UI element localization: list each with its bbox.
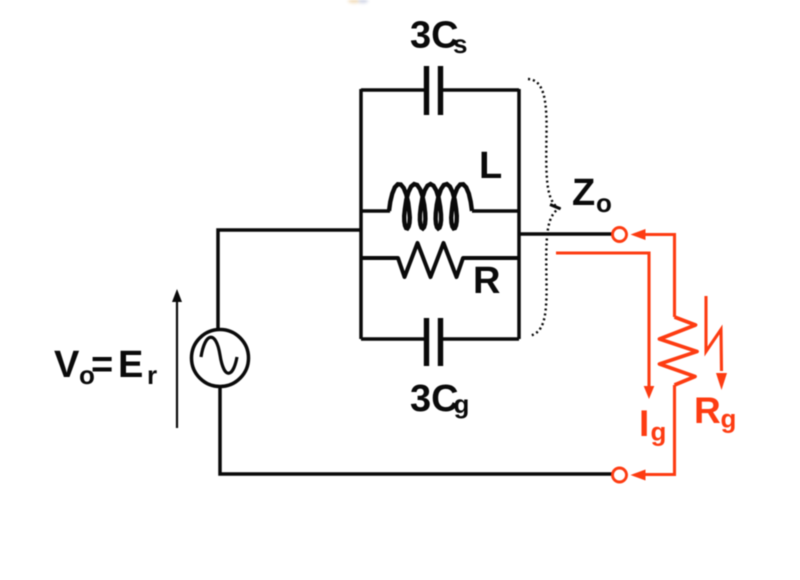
- wire red top from terminal to Rg: [641, 235, 675, 318]
- arrowhead Rg current: [716, 373, 727, 390]
- svg-text:I: I: [639, 403, 649, 444]
- svg-text:E: E: [118, 344, 143, 386]
- wire top branch right: [442, 88, 519, 92]
- svg-text:g: g: [721, 404, 737, 434]
- wire bottom branch right: [442, 337, 519, 341]
- svg-text:s: s: [453, 29, 467, 59]
- voltage source U1: [192, 330, 249, 387]
- wire bottom return: [220, 387, 612, 474]
- arrow V direction: [172, 289, 182, 428]
- svg-text:r: r: [147, 360, 157, 390]
- capacitor 3Cs: [427, 66, 441, 115]
- wire red bottom from Rg to terminal: [644, 385, 675, 475]
- wire Ig current path: [556, 253, 649, 388]
- capacitor 3Cg: [427, 318, 441, 366]
- arrow current through Rg: [706, 296, 722, 371]
- arrowhead at bottom terminal: [631, 470, 646, 481]
- wire output to terminal: [519, 232, 612, 236]
- svg-text:3C: 3C: [410, 378, 459, 420]
- terminal top: [613, 228, 627, 242]
- svg-text:=: =: [91, 344, 113, 386]
- node left vertical bus: [359, 89, 363, 339]
- smudge artifact top edge: [348, 0, 368, 3]
- arrowhead at top terminal: [631, 229, 646, 240]
- svg-text:Z: Z: [572, 172, 595, 214]
- wire input top: source top to box left node: [218, 230, 361, 329]
- svg-text:L: L: [479, 145, 502, 187]
- svg-text:R: R: [694, 390, 721, 431]
- svg-text:g: g: [651, 417, 667, 447]
- resistor Rg: [660, 317, 698, 385]
- brace Zo dotted: [528, 79, 559, 336]
- svg-text:o: o: [596, 188, 612, 218]
- svg-text:V: V: [54, 344, 80, 386]
- node right vertical bus: [517, 89, 521, 339]
- wire bottom branch left: [361, 337, 424, 341]
- terminal bottom: [613, 468, 627, 482]
- inductor L: [361, 209, 390, 213]
- svg-text:g: g: [454, 389, 470, 419]
- wire top branch left: [361, 88, 424, 92]
- svg-text:R: R: [473, 260, 500, 302]
- resistor R: [361, 243, 519, 277]
- arrowhead Ig: [644, 386, 655, 399]
- svg-text:3C: 3C: [410, 15, 459, 57]
